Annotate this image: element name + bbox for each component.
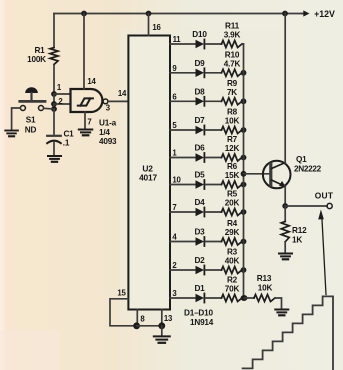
svg-text:10K: 10K <box>258 284 273 293</box>
wire: D8 cathode to R9 <box>205 100 221 102</box>
svg-text:+12V: +12V <box>314 9 335 19</box>
wire: D9 cathode to R10 <box>205 72 221 74</box>
wire: D10 cathode to R11 <box>205 43 221 45</box>
svg-text:R8: R8 <box>227 108 238 117</box>
svg-text:D10: D10 <box>192 30 207 39</box>
resistor R4 29K <box>222 238 243 245</box>
svg-text:29K: 29K <box>225 228 240 237</box>
svg-text:D8: D8 <box>194 87 205 96</box>
wire: U2 pin 3 to diode D1 <box>170 297 196 299</box>
svg-text:R12: R12 <box>292 226 307 235</box>
svg-text:4093: 4093 <box>99 137 117 146</box>
wire: R4 to summing bus <box>242 241 244 243</box>
svg-text:7K: 7K <box>227 88 237 97</box>
wire: R9 to summing bus <box>242 100 244 102</box>
staircase output waveform sketch <box>243 296 333 370</box>
diode D3 1N914 <box>196 237 205 245</box>
svg-text:7: 7 <box>87 118 91 127</box>
wire: D4 cathode to R5 <box>205 211 221 213</box>
ground (C1) <box>48 155 61 157</box>
wire: U1 pin14 (Vdd) to +12V rail <box>83 14 85 90</box>
node: Q1 base tap on bus <box>241 171 247 177</box>
svg-text:40K: 40K <box>225 257 240 266</box>
svg-text:D4: D4 <box>194 198 205 207</box>
wire: U2 pin 1 to diode D6 <box>170 157 196 159</box>
node: emitter / OUT / R12 junction <box>282 203 288 209</box>
svg-text:S1: S1 <box>26 116 36 125</box>
svg-text:.1: .1 <box>63 139 70 148</box>
node: bus junction at R4 <box>241 239 247 245</box>
svg-text:4.7K: 4.7K <box>224 59 241 68</box>
wire: Q1 collector to +12V rail <box>284 14 286 164</box>
wire: R12 to ground <box>284 242 286 253</box>
switch S1 (N.O. pushbutton) <box>25 87 38 93</box>
wire: U2 pin 7 to diode D4 <box>170 211 196 213</box>
resistor R8 10K <box>222 127 243 134</box>
wire: R3 to summing bus <box>242 269 244 271</box>
wire: R5 to summing bus <box>242 211 244 213</box>
wire: U2 pin8 stub <box>136 310 138 326</box>
wire: U2 pin 11 to diode D10 <box>170 43 196 45</box>
ground (U1 pin7) <box>79 129 93 131</box>
node: S1 junction <box>53 104 55 109</box>
transistor Q1 2N2222 (NPN) <box>263 161 291 189</box>
wire: node down to C1 <box>53 109 55 136</box>
svg-text:20K: 20K <box>225 199 240 208</box>
gate U1-a 1/4 4093 (Schmitt NAND) <box>71 89 103 112</box>
wire: U1 output pin3 to U2 pin14 <box>108 100 128 102</box>
wire: bus tap to Q1 base <box>244 173 271 175</box>
svg-text:2N2222: 2N2222 <box>294 165 322 174</box>
wire: U2 pin16 to +12V rail <box>148 14 150 36</box>
svg-text:OUT: OUT <box>315 191 334 201</box>
wire: Q1 emitter to output node <box>284 186 286 206</box>
capacitor C1 .1 <box>47 135 61 137</box>
wire: D5 cathode to R6 <box>205 184 221 186</box>
resistor R12 1K <box>281 222 289 242</box>
diode D1 1N914 <box>196 294 205 302</box>
svg-text:4017: 4017 <box>139 173 157 183</box>
node: pin8 ground junction <box>133 322 140 329</box>
IC U2 4017 decade counter <box>128 36 170 310</box>
wire: U2 pin15 to ground bus <box>110 299 137 326</box>
wire: C1 to ground <box>53 142 55 155</box>
diode D8 1N914 <box>196 97 205 105</box>
resistor R11 3.9K <box>222 41 243 48</box>
svg-text:12K: 12K <box>225 144 240 153</box>
node: bus junction at R7 <box>241 155 247 161</box>
wire: R6 to summing bus <box>242 184 244 186</box>
svg-text:14: 14 <box>87 77 96 86</box>
arrow: waveform points to OUT <box>322 218 326 295</box>
ground (R12) <box>279 253 292 255</box>
node: U1 pin1 junction <box>51 91 57 97</box>
node: bus junction at R8 <box>241 127 247 133</box>
svg-text:Q1: Q1 <box>296 155 307 164</box>
svg-text:3.9K: 3.9K <box>224 31 241 40</box>
svg-text:D1: D1 <box>194 284 205 293</box>
wire: D6 cathode to R7 <box>205 157 221 159</box>
wire: D7 cathode to R8 <box>205 129 221 131</box>
svg-text:R4: R4 <box>227 219 238 228</box>
svg-text:7: 7 <box>172 203 176 212</box>
svg-text:1/4: 1/4 <box>99 128 110 137</box>
svg-text:16: 16 <box>152 23 161 32</box>
svg-text:13: 13 <box>164 314 173 323</box>
wire: node down to R12 <box>284 206 286 222</box>
svg-text:R11: R11 <box>225 22 240 31</box>
ground (U2 pins 8/13) <box>161 326 163 336</box>
resistor R1 100K <box>50 48 58 65</box>
svg-text:70K: 70K <box>225 285 240 294</box>
wire: U1 pin7 (Vss) stub <box>84 112 86 129</box>
wire: +12V supply rail <box>54 13 302 15</box>
svg-text:R5: R5 <box>227 190 238 199</box>
resistor R6 15K <box>222 181 243 188</box>
node: rail / U1 pin14 junction <box>81 11 87 17</box>
svg-text:R2: R2 <box>227 276 238 285</box>
svg-text:C1: C1 <box>63 130 74 139</box>
node: bus junction at R3 <box>241 267 247 273</box>
node: bus junction at R2 <box>241 295 247 301</box>
svg-text:D6: D6 <box>194 144 205 153</box>
resistor R10 4.7K <box>222 69 243 76</box>
wire: D3 cathode to R4 <box>205 241 221 243</box>
wire: R7 to summing bus <box>242 157 244 159</box>
svg-text:10: 10 <box>172 176 181 185</box>
wire: node to OUT terminal <box>285 205 327 207</box>
wire: D2 cathode to R3 <box>205 269 221 271</box>
svg-text:R9: R9 <box>227 79 238 88</box>
wire: U2 pin 10 to diode D5 <box>170 184 196 186</box>
svg-text:R6: R6 <box>227 162 238 171</box>
node: bus junction at R5 <box>241 209 247 215</box>
svg-text:R7: R7 <box>227 135 238 144</box>
wire: U2 pin 6 to diode D8 <box>170 100 196 102</box>
wire: rail down to R1 <box>53 14 55 48</box>
diode D9 1N914 <box>196 69 205 77</box>
node: bus bottom / R13 junction <box>242 295 248 301</box>
svg-text:D7: D7 <box>194 116 205 125</box>
wire: R11 to summing bus <box>242 43 244 45</box>
svg-text:U1-a: U1-a <box>99 119 117 128</box>
wire: U2 pin 9 to diode D9 <box>170 72 196 74</box>
wire: R8 to summing bus <box>242 129 244 131</box>
svg-text:14: 14 <box>118 89 127 98</box>
svg-text:R1: R1 <box>34 46 45 55</box>
ground (S1) <box>5 130 18 132</box>
svg-text:R13: R13 <box>257 274 272 283</box>
svg-text:1N914: 1N914 <box>190 318 214 327</box>
resistor R3 40K <box>222 267 243 274</box>
svg-text:15K: 15K <box>225 171 240 180</box>
wire: R10 to summing bus <box>242 72 244 74</box>
wire: node to U1 pin2 <box>54 103 71 105</box>
resistor R13 10K <box>254 295 275 302</box>
svg-text:D2: D2 <box>194 256 205 265</box>
svg-text:11: 11 <box>173 35 182 44</box>
svg-text:10K: 10K <box>225 117 240 126</box>
wire: node to R13 <box>245 297 255 299</box>
resistor R7 12K <box>222 154 243 161</box>
wire: S1 right contact to input node <box>44 107 54 110</box>
svg-text:1K: 1K <box>292 236 302 245</box>
svg-text:R3: R3 <box>227 248 238 257</box>
wire: R1 to gate input node <box>53 65 55 95</box>
wire: U2 pin 2 to diode D2 <box>170 269 196 271</box>
svg-text:D1–D10: D1–D10 <box>184 309 213 318</box>
wire: S1 left contact to ground <box>12 108 21 130</box>
svg-text:ND: ND <box>25 126 37 135</box>
ground (R13) <box>275 309 288 311</box>
wire: node to U1 pin1 <box>54 93 71 95</box>
wire: U2 pin 4 to diode D3 <box>170 241 196 243</box>
node: rail / Q1 collector junction <box>282 11 288 17</box>
svg-text:D5: D5 <box>194 171 205 180</box>
diode D5 1N914 <box>196 180 205 188</box>
diode D10 1N914 <box>196 40 205 48</box>
wire: resistor summing bus <box>243 44 245 298</box>
wire: pin8 node to pin13 node <box>137 325 162 327</box>
wire: R2 to summing bus <box>242 297 244 299</box>
svg-text:100K: 100K <box>27 55 46 64</box>
node: pin13 ground junction <box>158 322 165 329</box>
svg-text:15: 15 <box>117 289 126 298</box>
wire: R13 to ground <box>275 298 282 309</box>
wire: U2 pin13 stub <box>161 310 163 326</box>
node: bus junction at R10 <box>241 70 247 76</box>
+12V supply arrow and label <box>302 13 305 15</box>
node: U1 pin2 junction <box>53 94 55 104</box>
terminal OUT <box>327 203 332 208</box>
node: bus junction at R9 <box>241 98 247 104</box>
svg-text:R10: R10 <box>225 50 240 59</box>
diode D2 1N914 <box>196 266 205 274</box>
diode D7 1N914 <box>196 126 205 134</box>
wire: U2 pin 5 to diode D7 <box>170 129 196 131</box>
node: rail / U2 pin16 junction <box>146 11 152 17</box>
diode D4 1N914 <box>196 208 205 216</box>
svg-text:D3: D3 <box>194 228 205 237</box>
resistor R2 70K <box>222 295 243 302</box>
resistor R9 7K <box>222 98 243 105</box>
resistor R5 20K <box>222 209 243 216</box>
diode D6 1N914 <box>196 153 205 161</box>
svg-text:D9: D9 <box>194 59 205 68</box>
wire: D1 cathode to R2 <box>205 297 221 299</box>
node: bus junction at R6 <box>241 182 247 188</box>
